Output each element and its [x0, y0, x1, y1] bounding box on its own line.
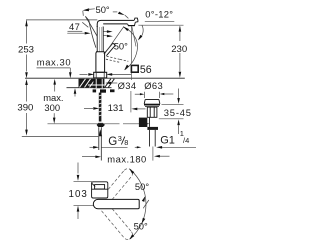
svg-text:max.30: max.30 [37, 57, 71, 68]
svg-text:253: 253 [18, 45, 34, 56]
svg-text:G: G [108, 135, 117, 148]
body top view [92, 182, 108, 198]
base plate [94, 72, 107, 78]
axis tick [143, 200, 149, 208]
svg-text:8: 8 [124, 138, 128, 147]
hose junction node [97, 123, 105, 127]
50 deg top label + leaders both sides [83, 8, 90, 11]
tip level extension line [138, 24, 183, 26]
flange extension ticks [144, 92, 146, 98]
svg-text:3: 3 [118, 134, 122, 143]
svg-text:131: 131 [108, 103, 124, 114]
max.300 dimension (up arrow at counter, two-line text, down arrow to hose-connect line) [54, 85, 56, 92]
counter bottom line [67, 87, 112, 89]
axis line below pipe [152, 147, 154, 161]
up arrow at hose on reference line [99, 129, 103, 136]
connection line to drain (max.300 bottom reference) [48, 123, 120, 125]
svg-text:390: 390 [17, 103, 33, 114]
dashed paddle (closed position) [106, 56, 128, 62]
threaded shank dark band [93, 79, 104, 88]
faucet: spout arm + tip [97, 18, 138, 27]
390 bottom reference line [22, 136, 98, 138]
counter top line [25, 77, 185, 79]
dashed swivel down [102, 205, 133, 240]
tilted stream line (12 deg) [132, 26, 136, 46]
drain flange [144, 100, 160, 104]
swivel arc [130, 169, 146, 239]
nut band [147, 127, 158, 130]
svg-text:35-45: 35-45 [164, 107, 192, 118]
threaded stud [99, 93, 102, 122]
svg-text:56: 56 [140, 64, 152, 76]
svg-text:300: 300 [44, 102, 60, 113]
hoses [99, 127, 102, 160]
svg-text:0°-12°: 0°-12° [145, 8, 173, 19]
up arrow under counter (right, max.30 pair) [74, 91, 76, 97]
svg-text:Ø34: Ø34 [118, 80, 137, 91]
counter dark band with white hatch slits [79, 79, 105, 88]
drain upper body [147, 107, 157, 117]
riser neck [98, 197, 103, 199]
aerator stream vertical line [130, 26, 133, 112]
svg-text:47: 47 [69, 21, 80, 32]
spout bar top view [93, 199, 139, 208]
svg-text:G1: G1 [160, 134, 175, 146]
35-45 dimension [162, 103, 184, 105]
lever paddle (solid, tilted) [104, 43, 115, 56]
paddle extension line [105, 26, 124, 53]
Ø63 dimension arrows [135, 93, 141, 95]
faucet body [96, 52, 105, 73]
dashed swivel up [102, 169, 133, 204]
arc arrowheads [129, 169, 134, 174]
dark hatch right of shank [105, 79, 115, 88]
small arrow left of pipe [135, 146, 138, 148]
svg-text:50°: 50° [114, 41, 128, 52]
lever travel arc 50deg [123, 27, 137, 70]
square-56 dimension arrows at faucet base [80, 73, 88, 75]
dimension 390 [26, 85, 28, 133]
dimension 230 [179, 27, 181, 72]
svg-text:max.180: max.180 [107, 153, 146, 164]
svg-text:50°: 50° [134, 220, 148, 231]
svg-text:103: 103 [69, 189, 88, 200]
dimension 253 [26, 20, 28, 71]
svg-text:50°: 50° [96, 4, 110, 15]
side outlet [139, 118, 147, 127]
svg-text:/4: /4 [183, 136, 189, 145]
svg-text:50°: 50° [135, 181, 149, 192]
aerator swivel arc with arrowhead [139, 25, 144, 39]
top extension line (lever top level) [26, 19, 97, 21]
mounting nuts row [93, 89, 115, 92]
lower pipe [150, 118, 156, 147]
faucet riser column [97, 26, 103, 52]
svg-text:Ø63: Ø63 [144, 80, 163, 91]
103 dimension [77, 163, 79, 174]
raised lever blade (left) [85, 16, 97, 47]
svg-text:230: 230 [171, 44, 187, 55]
two small angle arrows [103, 31, 107, 33]
